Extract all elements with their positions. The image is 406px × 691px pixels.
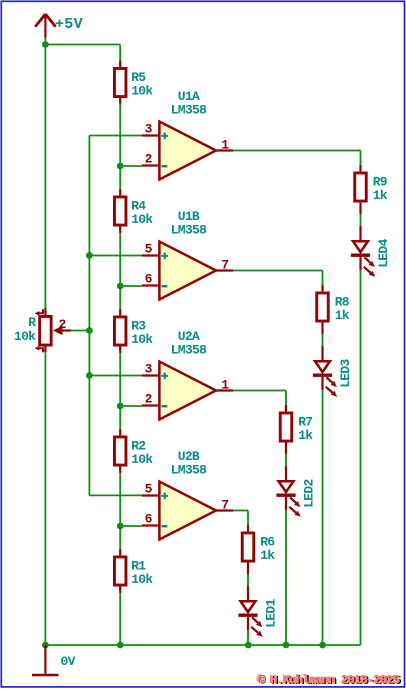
resistor R5 10k	[114, 61, 126, 105]
svg-text:© H.Kuhlmann 2018-2025: © H.Kuhlmann 2018-2025	[257, 673, 400, 687]
junction wiper node	[86, 327, 93, 334]
junction ground rail x45	[42, 642, 49, 649]
svg-text:2: 2	[145, 392, 153, 407]
svg-text:1: 1	[221, 378, 229, 393]
svg-text:10k: 10k	[131, 452, 153, 467]
wire LED4 to ground rail	[360, 270, 362, 645]
svg-text:5: 5	[145, 482, 153, 497]
svg-text:LED1: LED1	[263, 598, 278, 627]
label R8 value	[335, 294, 350, 322]
wire U1B pin5 to wiper rail	[89, 255, 142, 257]
junction wiper-U2A	[86, 372, 93, 379]
svg-text:1k: 1k	[335, 308, 350, 323]
label U2B	[178, 449, 200, 464]
copyright text	[256, 673, 401, 688]
junction tap R2-R1	[117, 523, 124, 530]
svg-text:10k: 10k	[131, 572, 153, 587]
svg-text:3: 3	[145, 362, 153, 377]
pin 2 label of R	[58, 317, 66, 332]
svg-text:LM358: LM358	[171, 103, 207, 118]
resistor R6 1k	[242, 525, 254, 574]
resistor R9 1k	[355, 165, 367, 214]
pin number 6 of U1B	[145, 272, 153, 287]
svg-text:LM358: LM358	[171, 343, 207, 358]
junction ground rail x286	[283, 642, 290, 649]
resistor R4 10k	[114, 189, 126, 233]
svg-text:2: 2	[58, 317, 66, 332]
supply +5V symbol	[35, 14, 55, 38]
pin number 5 of U1B	[145, 242, 153, 257]
svg-text:1: 1	[221, 138, 229, 153]
wire LED3 to ground rail	[322, 390, 324, 645]
pin number 6 of U2B	[145, 512, 153, 527]
label R3 value	[131, 318, 153, 347]
svg-text:+5V: +5V	[55, 16, 83, 33]
label R1 value	[131, 558, 153, 587]
wire divider rail seg5	[119, 593, 121, 645]
resistor R7 1k	[280, 405, 292, 454]
resistor R1 10k	[114, 549, 126, 593]
wire U1B pin6 to tap	[120, 285, 142, 287]
op-amp U1B LM358	[142, 242, 233, 300]
svg-text:1k: 1k	[260, 548, 275, 563]
wire LED2 to ground rail	[285, 510, 287, 645]
svg-text:6: 6	[145, 512, 153, 527]
op-amp U2B LM358	[142, 482, 233, 540]
junction ground rail x248	[245, 642, 252, 649]
wire +5V to R5 top	[45, 45, 120, 61]
label LED3	[338, 358, 353, 387]
wire U2B pin5 to wiper rail	[89, 494, 142, 496]
wire ground rail	[45, 644, 360, 646]
wire R8 to LED3	[322, 334, 324, 346]
label R9 value	[373, 174, 388, 202]
pin number 7 of U2B	[221, 498, 228, 513]
junction tap R5-R4	[117, 163, 124, 170]
potentiometer R 10k	[35, 308, 71, 352]
pin number 7 of U1B	[221, 258, 228, 273]
wire divider rail seg3	[119, 353, 121, 429]
svg-text:7: 7	[221, 498, 228, 513]
label U2A	[178, 329, 200, 344]
svg-text:2: 2	[145, 152, 153, 167]
wire R6 to LED1	[247, 574, 249, 586]
wire left +5V rail	[44, 45, 46, 309]
wire U1B output to R8	[233, 271, 323, 286]
pin number 2 of U2A	[145, 392, 153, 407]
pin number 1 of U1A	[221, 138, 229, 153]
wire U2B pin6 to tap	[120, 525, 142, 527]
pin number 2 of U1A	[145, 152, 153, 167]
op-amp U2A LM358	[142, 362, 233, 420]
label LED2	[301, 478, 316, 507]
wire U2A pin2 to tap	[120, 405, 142, 407]
svg-text:7: 7	[221, 258, 228, 273]
label LED1	[263, 598, 278, 627]
junction ground rail x120	[117, 642, 124, 649]
ground symbol 0V	[32, 645, 59, 675]
junction ground rail x322	[319, 642, 326, 649]
label U1A LM358	[171, 103, 207, 118]
junction +5V node	[42, 41, 49, 48]
wire U1A output to R9	[233, 151, 361, 166]
svg-text:R: R	[28, 315, 36, 330]
wire LED1 to ground rail	[247, 630, 249, 645]
label R4 value	[131, 198, 153, 227]
svg-text:10k: 10k	[14, 329, 36, 344]
pin number 1 of U2A	[221, 378, 229, 393]
label +5V	[55, 16, 83, 33]
wire wiper rail vertical	[88, 136, 90, 496]
wire U2B output to R6	[233, 511, 248, 526]
op-amp U1A LM358	[142, 122, 233, 180]
resistor R2 10k	[114, 429, 126, 473]
wire R9 to LED4	[360, 214, 362, 226]
wire U2A pin3 to wiper rail	[89, 375, 142, 377]
label U2B LM358	[171, 463, 207, 478]
wire U1A pin3 to wiper rail	[89, 135, 142, 137]
resistor R3 10k	[114, 309, 126, 353]
svg-text:10k: 10k	[131, 212, 153, 227]
svg-text:U2B: U2B	[178, 449, 200, 464]
label R5 value	[131, 70, 153, 99]
svg-text:LED2: LED2	[301, 478, 316, 507]
svg-text:0V: 0V	[61, 654, 76, 669]
svg-text:LM358: LM358	[171, 223, 207, 238]
label U2A LM358	[171, 343, 207, 358]
svg-text:10k: 10k	[131, 332, 153, 347]
wire U1A pin2 to tap	[120, 165, 142, 167]
svg-text:LED3: LED3	[338, 358, 353, 387]
label R6 value	[260, 534, 275, 562]
label U1B LM358	[171, 223, 207, 238]
wire U2A output to R7	[233, 391, 286, 406]
svg-text:5: 5	[145, 242, 153, 257]
wire divider rail seg2	[119, 233, 121, 309]
label R value 10k	[14, 329, 36, 344]
label U1B	[178, 209, 200, 224]
LED LED1	[238, 586, 262, 637]
svg-text:10k: 10k	[131, 83, 153, 98]
wire R7 to LED2	[285, 454, 287, 466]
pin number 5 of U2B	[145, 482, 153, 497]
pin number 3 of U1A	[145, 122, 153, 137]
LED LED4	[351, 226, 375, 277]
wire divider rail seg4	[119, 473, 121, 549]
wire +5V stub	[44, 38, 46, 45]
svg-text:6: 6	[145, 272, 153, 287]
svg-text:LM358: LM358	[171, 463, 207, 478]
wire divider rail seg1	[119, 105, 121, 190]
svg-text:LED4: LED4	[376, 238, 391, 267]
svg-text:3: 3	[145, 122, 153, 137]
LED LED3	[313, 346, 337, 397]
junction wiper-U1B	[86, 252, 93, 259]
wire wiper to rail	[71, 330, 89, 332]
label LED4	[376, 238, 391, 267]
svg-text:1k: 1k	[373, 188, 388, 203]
label R2 value	[131, 438, 153, 467]
resistor R8 1k	[317, 285, 329, 334]
label 0V	[61, 654, 76, 669]
pin number 3 of U2A	[145, 362, 153, 377]
junction tap R4-R3	[117, 283, 124, 290]
label R7 value	[298, 414, 313, 442]
LED LED2	[276, 466, 300, 517]
svg-text:U1A: U1A	[178, 89, 200, 104]
wire left rail lower	[44, 352, 46, 645]
junction tap R3-R2	[117, 403, 124, 410]
svg-text:U2A: U2A	[178, 329, 200, 344]
svg-text:U1B: U1B	[178, 209, 200, 224]
svg-text:1k: 1k	[298, 428, 313, 443]
label R	[28, 315, 36, 330]
label U1A	[178, 89, 200, 104]
